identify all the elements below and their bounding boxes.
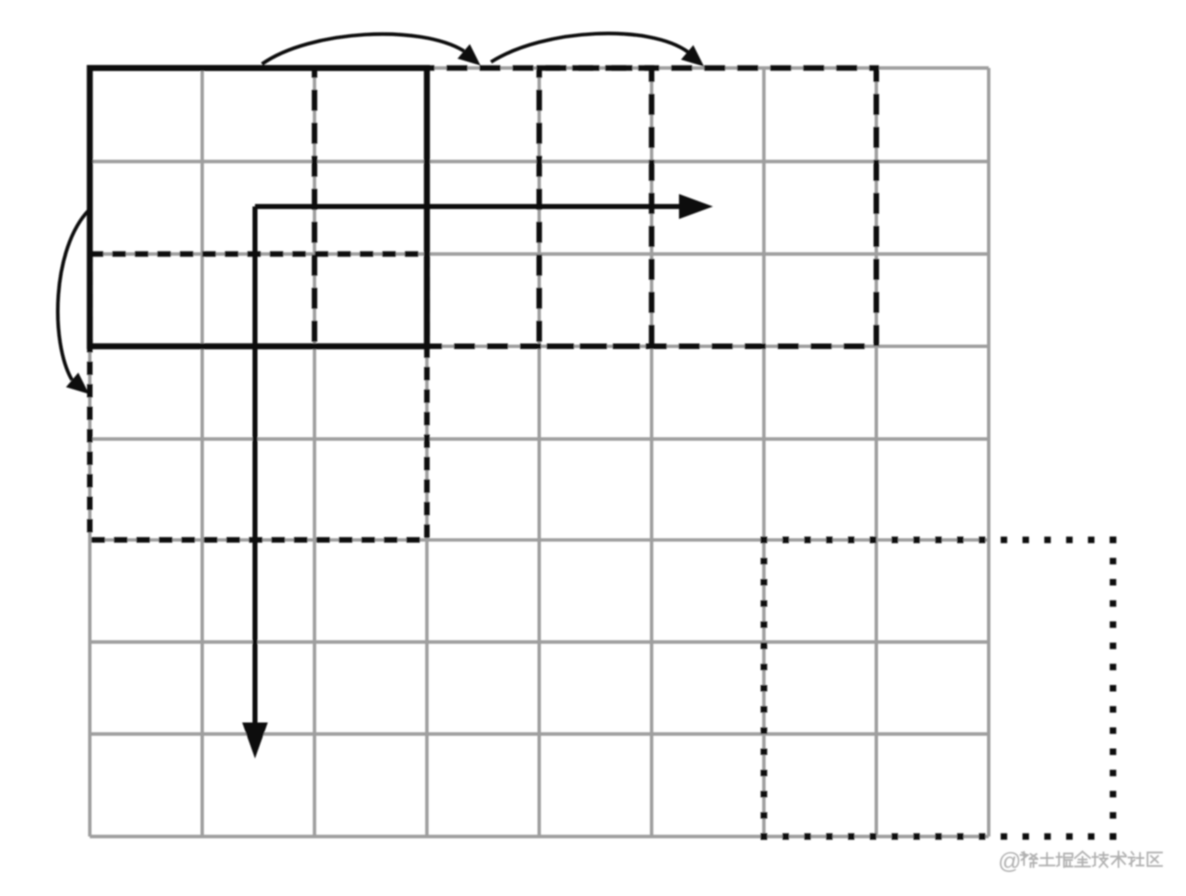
svg-text:@: @ [998,848,1021,874]
